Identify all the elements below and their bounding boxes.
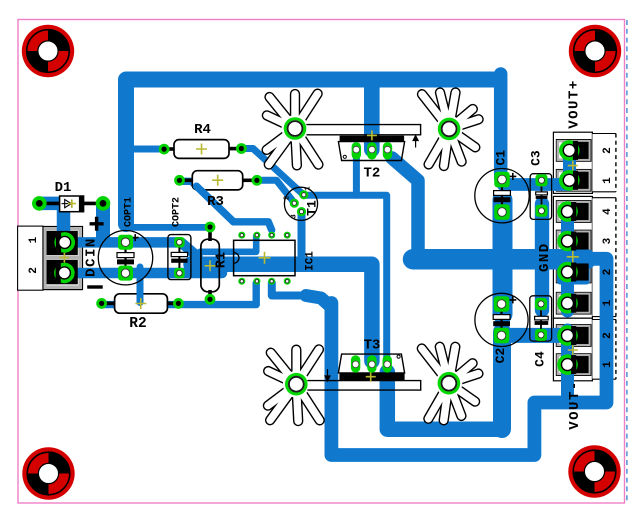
wire GND pin chain — [561, 208, 574, 311]
wire R3 left diagonal overlay — [197, 186, 234, 222]
origin cross VOUT+ — [568, 161, 578, 171]
pad IC1 pin bottom 2 — [253, 278, 260, 285]
wire R2 stub overlay — [137, 294, 144, 303]
svg-text:R2: R2 — [129, 316, 146, 332]
wire T1 pad3 to bus — [298, 213, 306, 257]
svg-text:1: 1 — [28, 236, 40, 243]
wire GND blob at terminal block — [557, 250, 590, 285]
pad GND pin4 — [557, 201, 578, 222]
svg-text:2: 2 — [284, 195, 292, 200]
pad D1 right — [96, 196, 111, 211]
pad heatsink top-right — [438, 118, 461, 141]
pad C3 bottom — [536, 205, 548, 217]
wire GND bus (right horizontal) — [413, 249, 586, 270]
svg-text:DCIN: DCIN — [84, 237, 100, 277]
T3 pad 3 — [383, 355, 392, 372]
GND pin1 opening — [563, 295, 589, 312]
pad IC1 pin top 4 — [284, 232, 291, 239]
transistor T1 outline — [284, 187, 317, 220]
VOUT- pin1 opening — [563, 356, 589, 373]
capacitor COPT2 bars — [171, 252, 187, 262]
pad R4 left — [159, 144, 170, 155]
origin cross R2 — [135, 298, 146, 309]
wire T2 right pad to GND bus — [392, 158, 418, 259]
svg-text:2: 2 — [602, 332, 614, 339]
svg-text:C3: C3 — [529, 150, 544, 166]
board edge dashed line (right) — [626, 20, 628, 503]
pad C4 bottom — [535, 329, 547, 341]
wire DCIN pin2 to COPT bottoms — [64, 268, 222, 279]
wire R3 left diagonal to IC1 pin3 — [181, 181, 272, 230]
pad heatsink bottom-left — [285, 373, 308, 396]
capacitor C3 lead stubs — [541, 187, 543, 205]
capacitor COPT1 lead stubs — [124, 247, 126, 269]
transistor T3 tab — [339, 373, 404, 381]
capacitor C4 symbol line — [540, 310, 542, 330]
pad R1 bottom — [205, 294, 216, 305]
DCIN minus symbol — [87, 285, 103, 288]
pad C1 minus — [494, 204, 510, 220]
svg-text:R4: R4 — [194, 122, 211, 138]
wire IC1 pin3b to ground riser — [272, 283, 309, 296]
connector DCIN inner frame — [45, 229, 81, 288]
VOUT+ pin2 opening — [563, 142, 589, 159]
capacitor COPT2 lead stubs — [178, 247, 180, 268]
capacitor C3 outline — [530, 174, 551, 220]
resistor R1 body — [201, 239, 219, 292]
wire C1-C2 column — [493, 200, 513, 314]
svg-text:D1: D1 — [55, 180, 72, 196]
wire +VIN top bus (left vertical / top horizontal) — [126, 80, 497, 225]
svg-text:T1: T1 — [305, 200, 320, 216]
capacitor COPT2 symbol line — [178, 247, 180, 269]
T3 pad 1 — [351, 355, 360, 372]
wire +VIN main bus through R1 and IC1 to T3 middle pad — [191, 264, 372, 361]
wire D1 right pad down — [96, 203, 110, 238]
pad IC1 pin top 2 — [253, 232, 260, 239]
pad DCIN pin1 — [54, 232, 75, 253]
GND pin4 opening — [563, 203, 589, 220]
wire R3 right to T1 pad2 — [258, 180, 295, 203]
svg-text:COPT2: COPT2 — [172, 197, 183, 227]
op-amp IC1 notch — [234, 253, 239, 264]
capacitor C4 bars — [535, 316, 549, 325]
wire T2 left pad down — [353, 152, 360, 195]
pad R2 left — [96, 298, 107, 309]
pad GND pin1 — [557, 293, 578, 314]
connector VOUT- block frame — [553, 318, 592, 381]
mounting hole top-right — [569, 25, 621, 77]
origin cross R1 — [205, 260, 216, 271]
wire VOUT- pin chain down to return — [561, 330, 574, 399]
resistor R3 body — [192, 171, 242, 190]
svg-text:COPT1: COPT1 — [124, 197, 135, 227]
capacitor COPT1 bars — [117, 253, 134, 265]
capacitor C1 lead stubs — [501, 186, 503, 208]
wire ground return staircase — [331, 259, 606, 455]
diode D1 lead left — [42, 202, 60, 206]
svg-text:IC1: IC1 — [305, 251, 317, 271]
svg-text:C1: C1 — [494, 150, 509, 166]
svg-text:3: 3 — [602, 237, 614, 244]
T2 orientation arrow — [413, 136, 418, 148]
pad COPT1 bottom — [118, 266, 133, 281]
pad C2 plus — [494, 296, 510, 312]
heatsink channel T2 — [307, 125, 421, 135]
pad R2 right — [173, 298, 184, 309]
diode D1 body — [60, 196, 84, 212]
wire top bus to T2 middle pad — [364, 84, 380, 150]
svg-text:C4: C4 — [533, 351, 548, 367]
heatsink star bottom-right — [422, 347, 479, 421]
svg-text:4: 4 — [602, 208, 614, 215]
capacitor C3 bars — [536, 192, 548, 199]
T2 pad 2 — [367, 142, 376, 159]
wire T1 pad1 to T2-left to T3-right (thin net) — [305, 195, 387, 365]
op-amp IC1 body — [234, 240, 295, 275]
transistor T3 body — [338, 354, 404, 373]
wire R2 stub — [137, 267, 144, 303]
VOUT+ pin1 opening — [563, 172, 589, 189]
origin cross DCIN — [59, 253, 69, 263]
svg-text:C2: C2 — [493, 348, 508, 364]
heatsink star top-right — [422, 93, 479, 167]
pad D1 left — [32, 196, 47, 211]
pad C4 top — [535, 298, 547, 310]
heatsink channel T3 — [308, 381, 421, 391]
capacitor C2 lead stubs — [500, 310, 502, 331]
diode D1 symbol — [62, 200, 72, 208]
pad heatsink top-left — [284, 117, 307, 140]
pad IC1 pin bottom 1 — [238, 278, 245, 285]
pad C2 minus — [494, 328, 510, 344]
transistor T2 pin1 dot — [343, 155, 346, 158]
pad VOUT- pin2 — [557, 325, 578, 346]
svg-text:VOUT+: VOUT+ — [567, 79, 583, 129]
wire C1 top to VOUT+ pin1 — [503, 178, 569, 191]
origin cross IC1 — [259, 252, 271, 264]
pad IC1 pin bottom 4 — [284, 278, 291, 285]
GND pin3 opening — [563, 232, 589, 249]
wire DCIN pin1 to COPT tops (+ rail) — [65, 242, 198, 256]
svg-text:2: 2 — [602, 147, 614, 154]
capacitor C2 bars — [493, 315, 510, 327]
pad IC1 pin top 1 — [238, 232, 245, 239]
pad DCIN pin2 — [54, 263, 75, 284]
connector DCIN cell frame pin1 — [45, 229, 80, 257]
capacitor C2 plus — [509, 296, 516, 303]
DCIN plus symbol — [90, 217, 104, 231]
wire R1 top pad feed — [128, 224, 209, 231]
pad IC1 pin top 3 — [268, 232, 275, 239]
capacitor COPT2 outline — [168, 235, 191, 280]
connector GND block frame — [553, 196, 592, 318]
wire ground riser bulge — [306, 296, 330, 307]
pad COPT1 top — [118, 235, 133, 250]
wire D1 left pad to DCIN pin1 — [39, 203, 63, 239]
pad C1 plus — [494, 172, 510, 188]
diode D1 cathode band — [79, 196, 84, 212]
svg-text:R3: R3 — [207, 194, 224, 210]
capacitor C1 bars — [494, 191, 511, 203]
GND pin2 opening — [563, 263, 589, 280]
wire R4 right to T1 pad1 — [242, 149, 304, 195]
heatsink star bottom-left — [268, 349, 320, 421]
capacitor COPT1 symbol line — [125, 246, 127, 270]
connector DCIN main box — [43, 227, 83, 290]
pad R4 right — [236, 143, 247, 154]
wire R4 left feed — [130, 146, 163, 153]
mounting hole top-left — [22, 25, 74, 77]
capacitor C1 plus — [509, 173, 516, 180]
pad T1 pin2 — [290, 199, 299, 208]
pad GND pin3 — [557, 231, 578, 252]
T3 pad 2 — [367, 355, 376, 372]
svg-text:1: 1 — [602, 177, 614, 184]
wire C2/C4/VOUT- pin2 link — [502, 328, 567, 343]
wire VOUT+ pin chain — [563, 149, 576, 181]
svg-text:3: 3 — [291, 214, 299, 219]
resistor R4 body — [174, 140, 229, 159]
transistor T2 body — [338, 142, 404, 161]
pad R3 left — [174, 175, 185, 186]
origin cross R3 — [212, 175, 223, 186]
capacitor C3 symbol line — [541, 186, 543, 205]
capacitor C1 symbol line — [501, 186, 503, 207]
DCIN pin1 opening — [47, 231, 78, 255]
resistor R2 leads — [102, 302, 179, 306]
connector DCIN cell frame pin2 — [45, 258, 80, 286]
pad VOUT+ pin2 — [559, 140, 580, 161]
svg-text:GND: GND — [537, 242, 553, 272]
svg-text:1: 1 — [305, 186, 313, 191]
origin cross T3 — [366, 372, 376, 382]
diode D1 lead right — [84, 202, 100, 206]
capacitor COPT1 plus — [132, 234, 139, 241]
resistor R2 body — [115, 294, 168, 313]
svg-text:T2: T2 — [363, 166, 380, 182]
pad COPT2 top — [174, 237, 185, 248]
wire T3 right pad to C2 bottom (inner L) — [387, 372, 502, 429]
connector DCIN number box — [18, 226, 43, 290]
wire +VIN top bus right drop to C1 — [494, 74, 508, 178]
origin cross D1 — [68, 200, 76, 208]
pad R1 top — [205, 222, 216, 233]
T2 pad 1 — [352, 142, 361, 159]
resistor R3 leads — [180, 179, 257, 183]
pad GND pin2 — [557, 262, 578, 283]
pad heatsink bottom-right — [438, 372, 461, 395]
connector VOUT+ block frame — [553, 132, 592, 193]
resistor R1 leads — [208, 227, 212, 300]
DCIN pin2 opening — [47, 260, 78, 284]
capacitor C4 lead stubs — [540, 310, 542, 329]
wire IC1 pin2 to bus — [200, 236, 256, 252]
heatsink star top-left — [267, 94, 319, 166]
mounting hole bottom-right — [568, 445, 620, 497]
pad IC1 pin bottom 3 — [268, 278, 275, 285]
pad R3 right — [252, 175, 263, 186]
capacitor C2 outline — [475, 293, 528, 346]
pad T1 pin3 — [297, 207, 306, 216]
pad COPT2 bottom — [174, 268, 185, 279]
origin cross T2 — [367, 130, 377, 140]
svg-text:VOUT-: VOUT- — [567, 380, 583, 430]
wire R2/R1-bottom/IC1-pin2b net — [102, 283, 257, 305]
svg-text:1: 1 — [602, 361, 614, 368]
capacitor C1 outline — [475, 169, 529, 223]
pad C3 top — [536, 174, 548, 186]
resistor R4 leads — [164, 147, 242, 151]
T3 orientation arrow — [325, 369, 330, 381]
origin cross R4 — [196, 144, 207, 155]
origin cross GND — [567, 251, 579, 263]
svg-text:2: 2 — [28, 267, 40, 274]
transistor T2 tab — [340, 136, 405, 142]
pad VOUT+ pin1 — [559, 170, 580, 191]
capacitor C2 symbol line — [501, 310, 503, 331]
pad T1 pin1 — [299, 190, 308, 199]
svg-text:2: 2 — [602, 269, 614, 276]
pad VOUT- pin1 — [557, 354, 578, 375]
capacitor C4 outline — [530, 296, 552, 341]
wire C3-C4 column — [535, 204, 549, 310]
T2 pad 3 — [383, 142, 392, 159]
capacitor COPT1 outline — [98, 231, 152, 285]
svg-text:T3: T3 — [364, 338, 381, 354]
origin cross VOUT- — [568, 345, 578, 355]
svg-text:R1: R1 — [215, 252, 230, 268]
svg-text:1: 1 — [602, 299, 614, 306]
transistor T3 pin1 dot — [397, 355, 400, 358]
mounting hole bottom-left — [22, 447, 74, 499]
VOUT- pin2 opening — [563, 327, 589, 344]
wire C2 bottom drop (inner L vertical) — [493, 332, 511, 429]
